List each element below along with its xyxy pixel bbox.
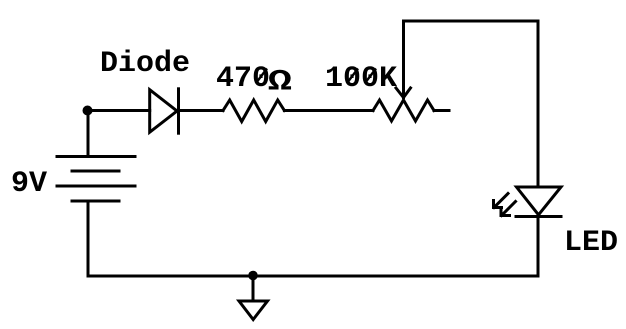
wire bottom return [88,275,538,278]
LED D2 emission arrow 2 head [501,209,510,216]
slash in second zero of 100K [365,69,376,84]
wire top to LED anode [537,21,540,187]
node GND junction dot [248,271,258,281]
potentiometer R2 100K zigzag [373,100,434,121]
wire battery+ to diode anode [88,109,150,112]
diode D1 triangle [150,90,177,133]
ground symbol [239,301,268,320]
wire battery bottom lead [87,201,90,276]
svg-text:470: 470 [216,62,270,96]
wire wiper to top [404,20,539,23]
wire diode to resistor [179,109,224,112]
potentiometer R2 wiper shaft [402,21,405,98]
potentiometer R2 wiper arrowhead [396,88,411,98]
LED D2 cathode bar [516,215,561,218]
battery B1 long plate 2 [57,185,135,188]
slash in zero of 470 [256,69,267,84]
wire battery top lead [87,111,90,157]
node A junction dot [83,106,93,116]
resistor R1 470ohm zigzag [223,100,284,122]
battery B1 short plate 2 [72,200,119,203]
svg-text:100K: 100K [325,62,397,96]
LED D2 emission arrow 1 shaft [494,194,508,208]
wire LED cathode down [537,217,540,277]
diode D1 cathode bar [177,89,180,133]
battery B1 long plate 1 [57,155,135,158]
LED D2 emission arrow 1 head [494,201,502,208]
svg-text:Diode: Diode [100,47,190,81]
svg-text:9V: 9V [11,167,47,201]
wire ground stub [252,276,255,302]
battery B1 short plate 1 [72,170,119,173]
wire resistor to potentiometer [284,109,373,112]
svg-text:Ω: Ω [268,65,292,98]
slash in first zero of 100K [347,69,358,84]
potentiometer R2 right stub [434,109,449,112]
svg-text:LED: LED [564,226,618,260]
LED D2 emission arrow 2 shaft [502,202,516,216]
LED D2 triangle [517,187,562,215]
